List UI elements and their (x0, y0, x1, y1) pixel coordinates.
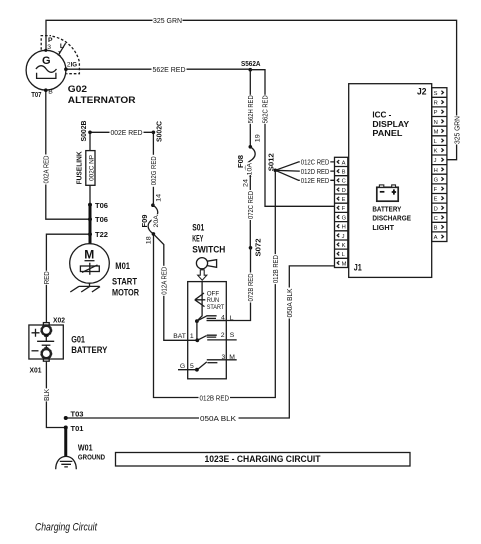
svg-text:J2: J2 (417, 86, 427, 96)
wire 562C RED S562A to ICC J1 pin F (250, 70, 334, 207)
wire 072B RED S072 to key switch terminal L (207, 248, 251, 321)
key arrow (198, 270, 207, 280)
start motor ground hatch (70, 283, 100, 292)
svg-text:IG: IG (71, 61, 78, 68)
wire 012C RED S012 to J1 pin A (275, 162, 334, 170)
alternator G02 (26, 49, 68, 92)
wire label 072C RED (246, 190, 255, 220)
svg-text:W01: W01 (78, 443, 93, 452)
battery discharge light icon (377, 185, 398, 201)
svg-text:L: L (230, 315, 234, 322)
svg-text:S: S (230, 332, 235, 339)
svg-text:D: D (434, 206, 438, 212)
label ICC - DISPLAY PANEL (372, 110, 409, 139)
label G02 ALTERNATOR (68, 84, 136, 105)
fuse F08 10A (236, 134, 261, 187)
node T06 (upper) (88, 201, 108, 210)
svg-text:M: M (342, 261, 347, 267)
svg-text:J1: J1 (354, 263, 362, 273)
svg-text:L: L (60, 43, 64, 50)
node T01 (64, 424, 84, 433)
alternator terminal 2 IG (67, 61, 77, 68)
svg-text:G: G (180, 363, 185, 370)
label BATTERY DISCHARGE LIGHT (372, 205, 411, 232)
svg-text:B: B (48, 89, 53, 96)
svg-text:MOTOR: MOTOR (112, 288, 139, 298)
svg-text:G: G (434, 178, 439, 184)
svg-text:562H RED: 562H RED (246, 95, 255, 123)
svg-text:19: 19 (254, 134, 261, 142)
svg-text:050A BLK: 050A BLK (200, 414, 236, 423)
svg-text:1023E - CHARGING CIRCUIT: 1023E - CHARGING CIRCUIT (205, 454, 322, 464)
fuse F09 20A (140, 194, 162, 245)
svg-text:A: A (434, 235, 438, 241)
svg-text:002C NP: 002C NP (88, 154, 95, 180)
svg-text:K: K (342, 243, 346, 249)
svg-text:S01: S01 (192, 222, 204, 232)
ground W01 (56, 443, 105, 469)
fuselink 002C NP (75, 132, 96, 205)
connector J1 pin arrows (337, 160, 339, 265)
label J2 (417, 86, 427, 96)
svg-text:T03: T03 (71, 410, 84, 419)
svg-text:R: R (434, 101, 438, 107)
svg-text:562C RED: 562C RED (261, 95, 270, 123)
alternator terminal B / node T07 (31, 89, 53, 99)
caption Charging Circuit (35, 522, 98, 534)
label S01 KEY SWITCH (192, 222, 225, 254)
svg-text:1: 1 (57, 51, 61, 58)
svg-text:4: 4 (221, 315, 225, 322)
svg-text:002E RED: 002E RED (111, 128, 143, 137)
svg-text:10A: 10A (247, 162, 254, 175)
svg-text:T06: T06 (95, 201, 108, 210)
label G01 BATTERY (71, 334, 108, 355)
wire 562E RED alternator IG to S562A (66, 68, 250, 70)
svg-text:KEY: KEY (192, 233, 203, 243)
svg-text:BAT: BAT (173, 333, 186, 340)
label M01 START MOTOR (112, 261, 139, 298)
wire 002A RED alternator B to T06 (46, 90, 90, 219)
connector J2 pin arrows (441, 91, 443, 239)
wire battery negative X01 to T01 (46, 361, 65, 428)
wire label 072B RED (246, 273, 255, 303)
ICC display panel box (349, 84, 432, 278)
alternator terminal L 1 (57, 43, 65, 58)
svg-text:M01: M01 (115, 261, 130, 271)
svg-text:G02: G02 (68, 84, 87, 94)
svg-text:A: A (342, 160, 346, 166)
svg-text:F: F (342, 206, 346, 212)
node S002B (79, 121, 92, 142)
svg-text:B: B (342, 170, 346, 176)
wire 050A BLK T03 to J1 pin M (66, 266, 335, 418)
wire label 012E RED (300, 176, 331, 185)
alternator terminal arc (dashed) (53, 36, 80, 73)
svg-text:LIGHT: LIGHT (372, 223, 394, 232)
battery terminal X02 (41, 316, 65, 337)
svg-text:G01: G01 (71, 334, 85, 344)
node S002C (152, 121, 164, 142)
svg-text:012C RED: 012C RED (301, 158, 330, 167)
svg-text:ALTERNATOR: ALTERNATOR (68, 95, 136, 105)
node S012 (267, 153, 277, 172)
svg-text:X01: X01 (30, 365, 42, 374)
svg-text:325 GRN: 325 GRN (452, 116, 461, 144)
node S072 (249, 239, 263, 257)
svg-text:002A RED: 002A RED (42, 156, 51, 184)
wire label 325 GRN (right vertical) (452, 116, 461, 145)
svg-text:H: H (434, 168, 438, 174)
svg-text:D: D (342, 188, 346, 194)
wire 012B RED S012 down, across, up to fuse F09 (154, 170, 276, 397)
key switch S01 box (188, 282, 227, 379)
wire 012D RED S012 to J1 pin B (275, 169, 334, 172)
battery terminal X01 (30, 347, 52, 374)
wire label 325 GRN (top) (153, 16, 183, 25)
svg-text:B: B (434, 226, 438, 232)
svg-text:S562A: S562A (241, 59, 261, 68)
svg-text:20A: 20A (153, 215, 160, 228)
svg-text:FUSELINK: FUSELINK (75, 151, 84, 185)
svg-text:S: S (434, 91, 438, 97)
svg-text:Charging Circuit: Charging Circuit (35, 522, 98, 534)
svg-text:562E RED: 562E RED (153, 65, 186, 74)
wire 072C RED F08 to S072 (249, 175, 251, 248)
svg-text:050A BLK: 050A BLK (285, 288, 294, 317)
svg-text:012B RED: 012B RED (271, 255, 280, 283)
alternator terminal P 3 (dashed box) (41, 36, 53, 51)
svg-text:012A RED: 012A RED (160, 267, 169, 295)
wire label 002G RED (149, 155, 158, 187)
key symbol (196, 258, 216, 269)
wire label 012B RED (vertical) (271, 254, 280, 284)
key switch positions OFF RUN START (195, 282, 225, 322)
wire 562H RED S562A to fuse F08 (249, 70, 251, 147)
wire label 562C RED (261, 95, 270, 124)
switch contact 3 M / G 5 (178, 354, 237, 372)
svg-text:24: 24 (242, 179, 249, 187)
svg-text:G: G (42, 55, 51, 67)
svg-text:012B RED: 012B RED (200, 393, 230, 402)
svg-text:072C RED: 072C RED (246, 191, 255, 219)
svg-text:M: M (84, 247, 94, 261)
svg-text:E: E (434, 197, 438, 203)
svg-text:M: M (434, 129, 439, 135)
wire label BLK (42, 388, 51, 401)
svg-text:325 GRN: 325 GRN (153, 16, 182, 25)
svg-text:C: C (434, 216, 438, 222)
svg-text:3: 3 (47, 44, 51, 51)
svg-text:002G RED: 002G RED (149, 156, 158, 185)
node T22 (88, 230, 108, 239)
svg-text:T06: T06 (95, 215, 108, 224)
wire 002E RED S002B to S002C (90, 131, 153, 133)
wire battery positive T22 to X02 (46, 234, 90, 323)
svg-text:BATTERY: BATTERY (71, 345, 108, 355)
svg-text:RED: RED (42, 271, 51, 284)
svg-text:S072: S072 (254, 239, 263, 257)
svg-text:1: 1 (190, 333, 194, 340)
wire label 562E RED (152, 65, 187, 74)
svg-text:H: H (342, 225, 346, 231)
node S562A (241, 59, 261, 71)
svg-text:P: P (434, 110, 438, 116)
svg-text:J: J (434, 158, 437, 164)
svg-text:BLK: BLK (42, 389, 51, 401)
svg-text:G: G (342, 215, 347, 221)
svg-text:F08: F08 (236, 155, 245, 168)
svg-text:BATTERY: BATTERY (372, 205, 401, 214)
svg-text:K: K (434, 149, 438, 155)
node T03 (64, 410, 84, 421)
svg-text:14: 14 (155, 194, 162, 202)
svg-text:S002B: S002B (79, 121, 88, 142)
svg-text:012E RED: 012E RED (301, 176, 330, 185)
svg-text:N: N (434, 120, 438, 126)
wire label 050A BLK (vertical) (285, 288, 294, 319)
svg-text:F09: F09 (140, 215, 149, 228)
switch contact 4 L (195, 315, 234, 324)
svg-text:START: START (112, 277, 137, 287)
wire label RED (42, 271, 51, 285)
svg-text:C: C (342, 179, 346, 185)
wire label 012D RED (300, 167, 331, 176)
svg-text:5: 5 (190, 363, 194, 370)
svg-text:DISCHARGE: DISCHARGE (372, 214, 411, 223)
label J1 (354, 263, 362, 273)
connector J1 (left, pins A-M) (335, 157, 348, 267)
title box 1023E - CHARGING CIRCUIT (116, 453, 411, 467)
svg-text:E: E (342, 197, 346, 203)
connector J2 pin letters (434, 91, 439, 241)
wire label 012B RED (horizontal) (199, 393, 231, 402)
svg-text:18: 18 (145, 236, 152, 244)
heavy wire T06 to start motor (89, 205, 92, 244)
start motor M01 (70, 244, 110, 284)
svg-text:GROUND: GROUND (78, 455, 105, 462)
svg-text:012D RED: 012D RED (301, 167, 330, 176)
wire label 562H RED (246, 95, 255, 124)
svg-text:J: J (342, 234, 345, 240)
wire 325 GRN from alternator P terminal to ICC J2 pin J (46, 20, 457, 159)
wire 002G RED S002C to F09 (152, 132, 154, 205)
svg-text:X02: X02 (53, 316, 65, 325)
svg-text:072B RED: 072B RED (246, 274, 255, 302)
svg-text:PANEL: PANEL (372, 128, 402, 138)
svg-text:T22: T22 (95, 230, 108, 239)
wire label 002A RED (42, 155, 51, 185)
svg-text:START: START (207, 304, 225, 311)
wire label 012C RED (300, 158, 331, 167)
wire 012E RED S012 to J1 pin C (275, 170, 334, 180)
svg-text:T01: T01 (71, 424, 84, 433)
svg-text:T07: T07 (31, 90, 41, 99)
wire 012A RED F09 to key switch BAT 1 (153, 234, 197, 340)
battery G01 (29, 325, 63, 359)
connector J1 pin letters (342, 160, 347, 267)
heavy wire T01 to ground W01 (64, 426, 67, 457)
svg-text:SWITCH: SWITCH (192, 244, 225, 254)
svg-text:F: F (434, 187, 438, 193)
node T06 (lower) (88, 215, 108, 224)
wire label 012A RED (160, 266, 169, 296)
svg-text:S002C: S002C (154, 121, 163, 142)
wire label 002E RED (110, 128, 144, 137)
svg-text:M: M (229, 354, 235, 361)
switch contact BAT 1 / 2 S (173, 321, 237, 342)
svg-text:2: 2 (221, 332, 225, 339)
svg-text:S012: S012 (267, 153, 276, 171)
wire label 050A BLK (horizontal) (199, 414, 239, 423)
svg-text:3: 3 (222, 354, 226, 361)
connector J2 (right, pins S-A) (432, 88, 447, 242)
